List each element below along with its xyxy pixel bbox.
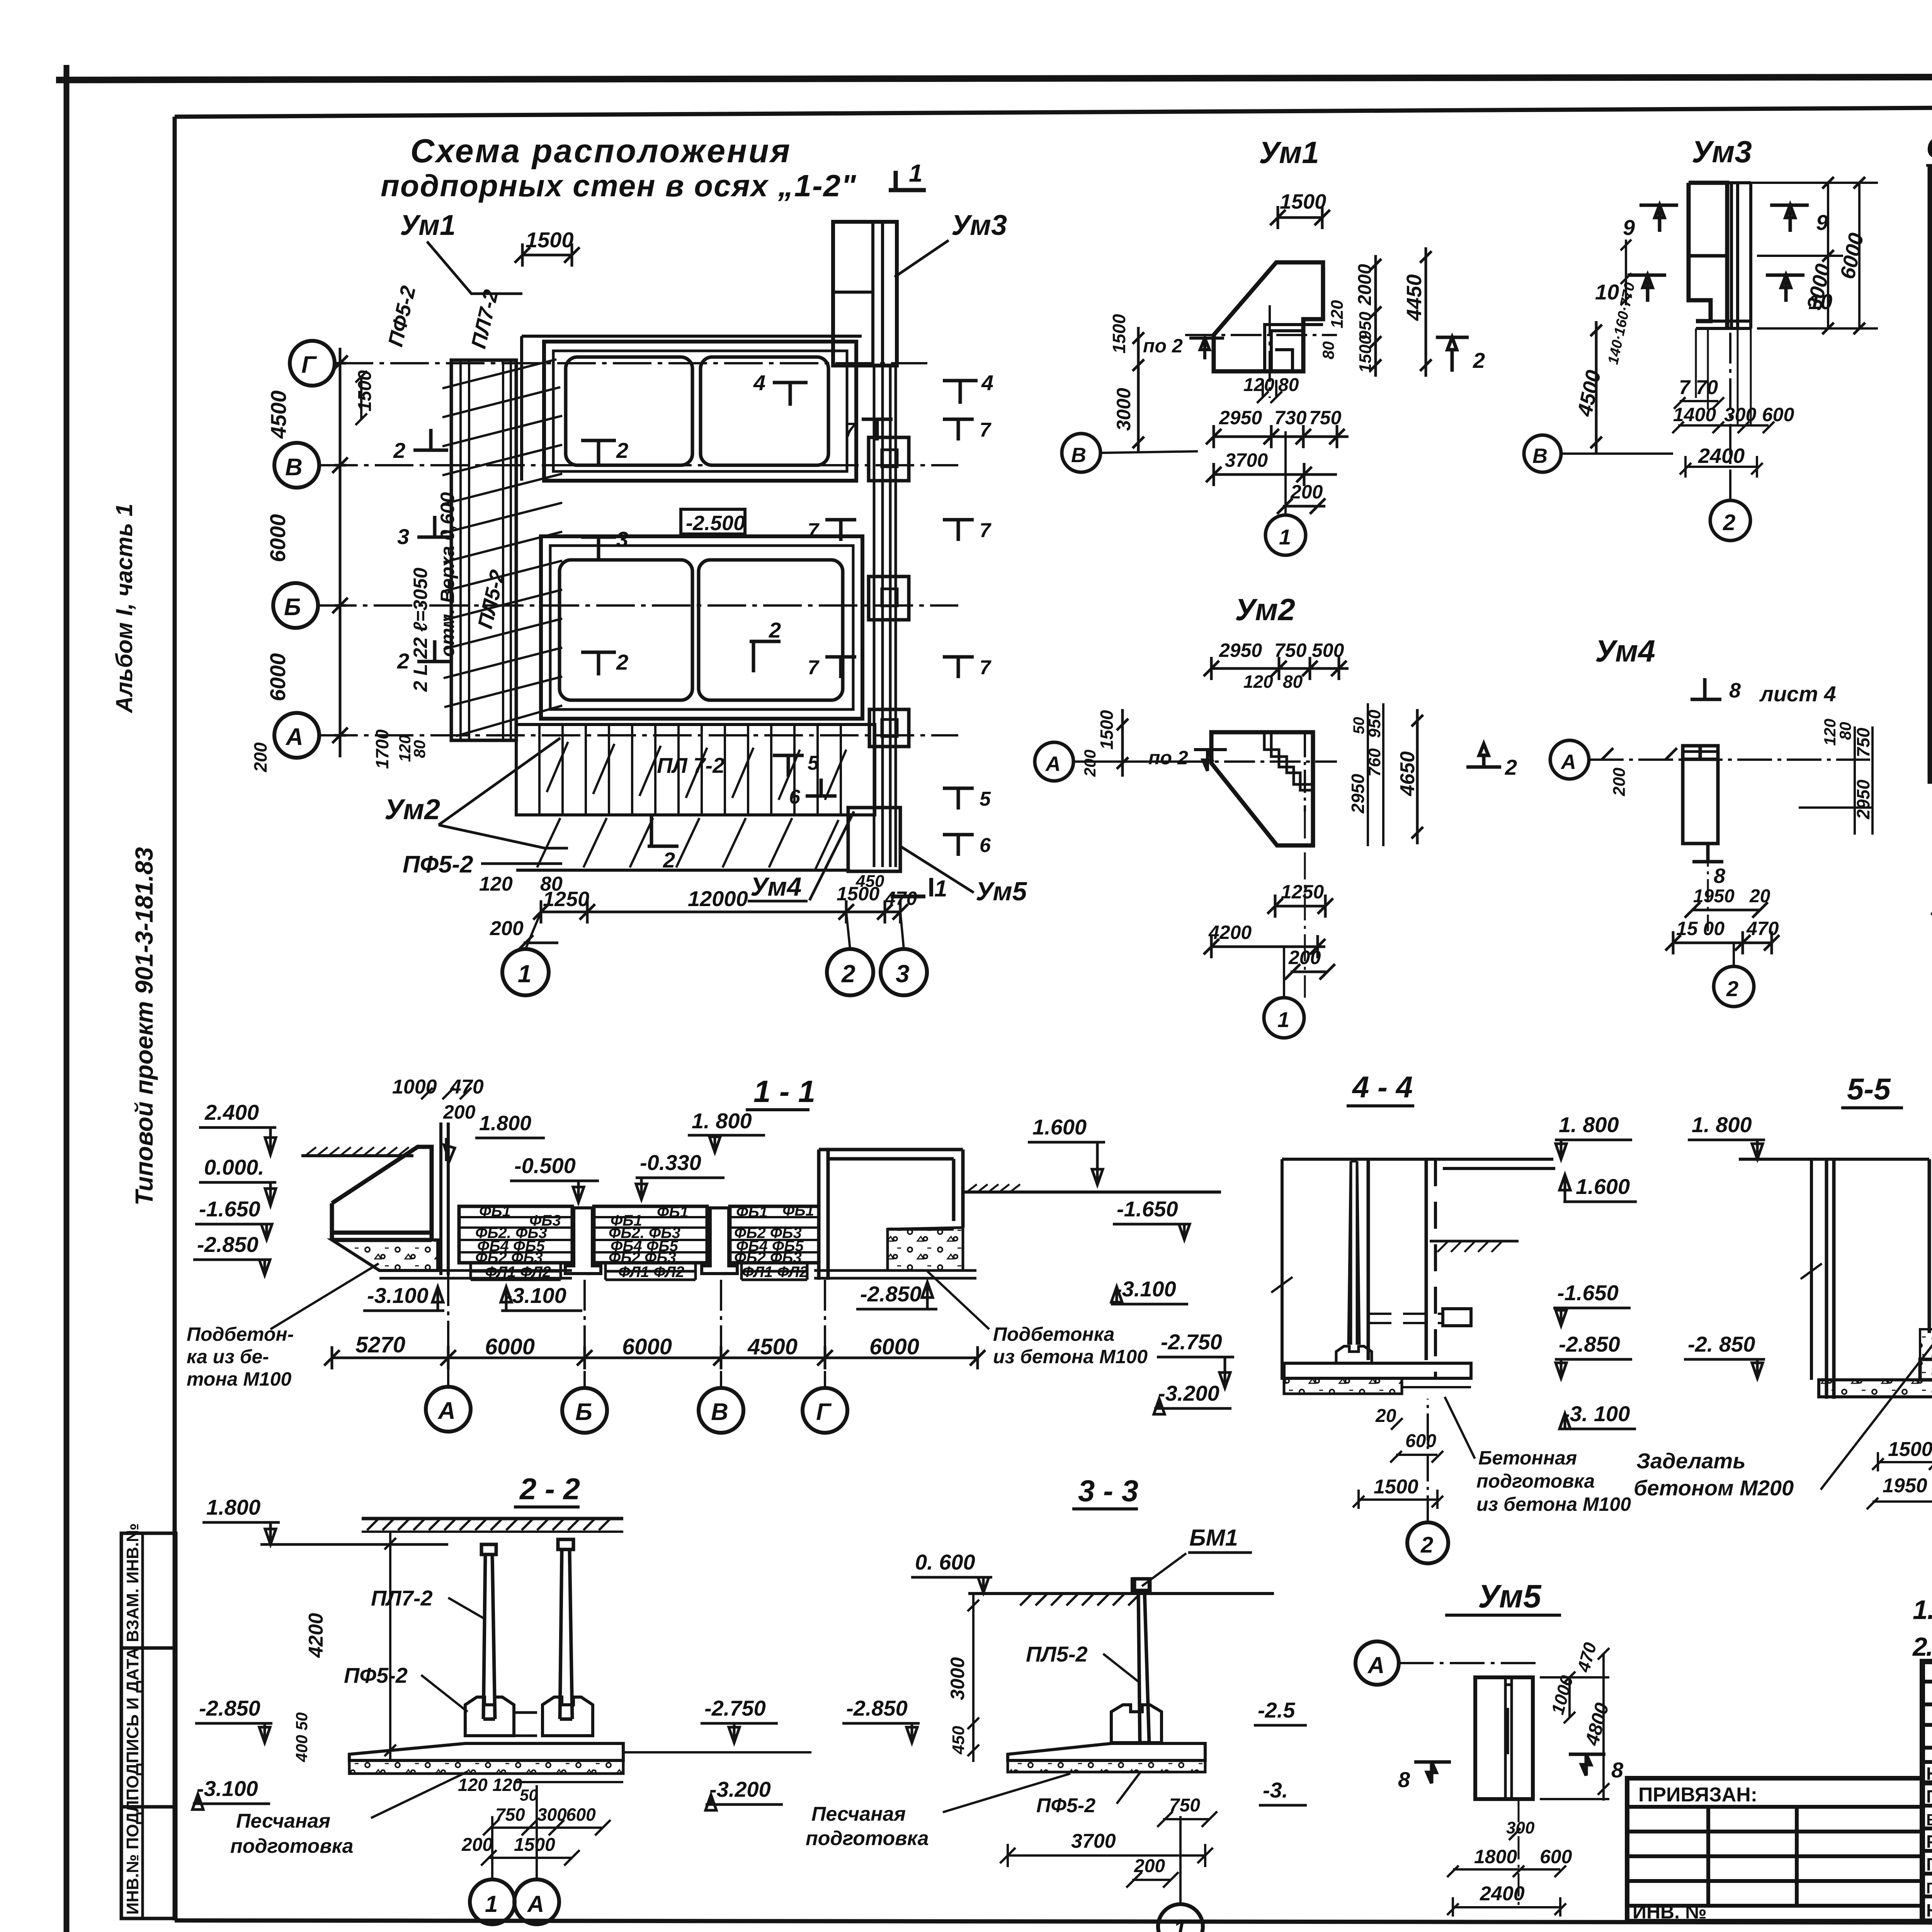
svg-text:200: 200 <box>1134 1856 1165 1876</box>
svg-text:1: 1 <box>909 159 923 187</box>
svg-text:ФЛ1 ФЛ2: ФЛ1 ФЛ2 <box>485 1264 551 1281</box>
1-1 axis A wall strip <box>441 1122 448 1275</box>
Um2 right dim column <box>1368 703 1383 846</box>
Um1 dim 4450 <box>1420 247 1432 377</box>
svg-text:Ум2: Ум2 <box>1235 592 1295 627</box>
svg-text:ФЛ1 ФЛ2: ФЛ1 ФЛ2 <box>618 1264 684 1281</box>
right top block <box>833 222 897 366</box>
svg-text:200: 200 <box>1610 767 1629 796</box>
svg-text:3: 3 <box>397 524 409 549</box>
spec table header bottom <box>1930 234 1932 239</box>
left dim chain line <box>335 348 346 757</box>
svg-text:3700: 3700 <box>1225 449 1268 471</box>
svg-text:ФБ1: ФБ1 <box>657 1204 689 1221</box>
svg-text:80: 80 <box>1836 722 1854 740</box>
2-2 dim 4200 <box>384 1532 396 1762</box>
svg-text:ПФ5-2: ПФ5-2 <box>1036 1794 1095 1817</box>
svg-text:Песчаная: Песчаная <box>811 1803 906 1825</box>
svg-text:2000: 2000 <box>1355 264 1375 306</box>
right wall strip double lines <box>874 366 896 867</box>
svg-text:2: 2 <box>393 438 405 463</box>
svg-text:1950: 1950 <box>1883 1475 1927 1497</box>
svg-text:лист 4: лист 4 <box>1759 682 1836 706</box>
Um4 A bubble <box>1550 740 1589 779</box>
svg-text:3000: 3000 <box>947 1657 968 1700</box>
svg-text:1.600: 1.600 <box>1576 1174 1630 1199</box>
svg-text:Ум3: Ум3 <box>1692 134 1752 169</box>
Um3 big block <box>1689 183 1727 328</box>
svg-text:120: 120 <box>1328 300 1347 328</box>
upper tank outer wall <box>544 342 856 481</box>
svg-text:1500: 1500 <box>514 1835 555 1855</box>
svg-text:4650: 4650 <box>1396 751 1419 796</box>
Um5 flag 8 left <box>1414 1762 1451 1783</box>
svg-text:5270: 5270 <box>355 1332 405 1357</box>
Um3 bubble 2 <box>1710 500 1750 541</box>
svg-text:120 120: 120 120 <box>458 1775 522 1795</box>
svg-text:РУК. ГР.: РУК. ГР. <box>1926 1832 1932 1852</box>
svg-text:120: 120 <box>479 873 513 895</box>
svg-text:Г: Г <box>816 1399 832 1425</box>
5-5 left boundary <box>1810 1159 1813 1380</box>
Um1 flag 2 <box>1436 337 1469 372</box>
Um1 V bubble <box>1062 434 1100 472</box>
svg-text:-2.850: -2.850 <box>1559 1332 1620 1356</box>
svg-text:200: 200 <box>1290 481 1323 503</box>
svg-text:20: 20 <box>1375 1406 1396 1426</box>
svg-text:200: 200 <box>461 1835 493 1855</box>
svg-text:-2.850: -2.850 <box>199 1696 260 1720</box>
4-4 ground right <box>1430 1240 1519 1243</box>
svg-text:1. 800: 1. 800 <box>1559 1112 1619 1137</box>
1-1 block group 3 <box>730 1206 819 1263</box>
svg-text:7 70: 7 70 <box>1679 376 1718 399</box>
svg-text:600: 600 <box>566 1804 596 1825</box>
svg-text:600: 600 <box>1405 1431 1436 1451</box>
leader Um3 <box>895 240 949 277</box>
svg-text:Ум4: Ум4 <box>1595 634 1655 668</box>
svg-text:-3.200: -3.200 <box>1158 1381 1219 1405</box>
3-3 labels bottom <box>806 1803 929 1850</box>
svg-text:-1.650: -1.650 <box>1557 1281 1619 1305</box>
svg-text:80: 80 <box>410 740 429 758</box>
elevation -2.500 box <box>681 509 745 534</box>
svg-text:Ум1: Ум1 <box>400 209 456 241</box>
svg-text:1800: 1800 <box>1474 1846 1517 1867</box>
5-5 concrete gap <box>1920 1329 1932 1380</box>
svg-text:3: 3 <box>896 960 910 988</box>
svg-text:-2.500: -2.500 <box>686 512 745 535</box>
svg-text:300: 300 <box>1506 1818 1535 1837</box>
signature table rows upper empty <box>1922 1680 1932 1684</box>
2-2 bubbles <box>470 1879 515 1924</box>
svg-text:-2.750: -2.750 <box>704 1696 766 1720</box>
3-3 wall post <box>1134 1579 1150 1743</box>
svg-text:ПРОВЕР.: ПРОВЕР. <box>1926 1786 1932 1806</box>
svg-text:-3.100: -3.100 <box>367 1283 429 1308</box>
4-4 left boundary <box>1281 1159 1284 1380</box>
svg-text:600: 600 <box>1762 404 1794 425</box>
svg-text:3700: 3700 <box>1071 1830 1116 1852</box>
svg-text:6000: 6000 <box>265 514 290 562</box>
4-4 ledge <box>1443 1309 1471 1326</box>
svg-text:-2.750: -2.750 <box>1161 1330 1222 1354</box>
svg-text:450: 450 <box>855 872 884 891</box>
Um1 inner steps <box>1265 325 1323 371</box>
2-2 footings <box>465 1697 514 1736</box>
3-3 bubble 1 <box>1158 1904 1203 1932</box>
svg-text:1500: 1500 <box>1356 335 1375 373</box>
section mark 1 bottom <box>891 878 931 896</box>
svg-text:4: 4 <box>753 371 765 395</box>
axis bubble A <box>274 713 319 758</box>
svg-text:120: 120 <box>1243 672 1273 692</box>
svg-text:В: В <box>711 1399 728 1425</box>
svg-text:1. 800: 1. 800 <box>1692 1112 1752 1137</box>
svg-text:12000: 12000 <box>688 886 748 911</box>
svg-text:950: 950 <box>1365 709 1384 738</box>
1-1 podbeton label right <box>993 1323 1148 1367</box>
Um3 figure verticals down <box>1696 328 1751 425</box>
svg-text:2: 2 <box>1420 1532 1433 1558</box>
svg-text:2. Плиты перекрытий условн: 2. Плиты перекрытий условно не полазаны. <box>1912 1632 1932 1662</box>
Um3 block mid line <box>1689 254 1727 258</box>
svg-text:А: А <box>1367 1652 1384 1678</box>
svg-text:2: 2 <box>1723 510 1735 535</box>
svg-text:по 2: по 2 <box>1148 747 1188 769</box>
svg-text:2: 2 <box>1473 348 1485 372</box>
svg-text:по 2: по 2 <box>1143 335 1183 357</box>
axis line V <box>319 464 958 466</box>
svg-text:Ум5: Ум5 <box>1478 1578 1542 1614</box>
Um4 bubble 2 <box>1714 966 1754 1007</box>
Um4 body <box>1683 746 1718 844</box>
svg-text:1000: 1000 <box>392 1076 437 1098</box>
1-1 left podbetonka wedge <box>332 1240 438 1270</box>
left label strip inner vertical <box>141 1533 144 1918</box>
svg-text:1: 1 <box>518 960 532 988</box>
svg-text:А: А <box>527 1891 544 1917</box>
Um5 flag 8 right <box>1569 1754 1605 1776</box>
svg-text:200: 200 <box>443 1101 476 1123</box>
Um3 flag 10 left <box>1628 275 1666 302</box>
1-1 dim chain <box>332 1346 978 1369</box>
svg-text:В: В <box>1532 444 1548 468</box>
svg-text:2.400: 2.400 <box>204 1100 259 1124</box>
svg-text:подготовка: подготовка <box>230 1835 354 1857</box>
svg-text:3000: 3000 <box>1113 388 1134 431</box>
3-3 footing <box>1111 1705 1162 1743</box>
inner frame bottom line <box>175 1920 1932 1923</box>
svg-text:6000: 6000 <box>622 1334 672 1359</box>
svg-text:470: 470 <box>450 1076 484 1098</box>
svg-text:7: 7 <box>980 519 992 542</box>
1-1 right ground <box>963 1190 1221 1194</box>
svg-text:6: 6 <box>789 786 801 808</box>
Um3 V bubble <box>1524 435 1561 472</box>
2-2/3-3 sand prep label <box>230 1810 354 1857</box>
svg-text:6000: 6000 <box>265 653 290 701</box>
svg-text:1: 1 <box>1173 1916 1186 1932</box>
2-2 base slab <box>349 1743 623 1760</box>
svg-text:ВЗАМ. ИНВ.№: ВЗАМ. ИНВ.№ <box>123 1523 142 1642</box>
lower tank outer wall <box>541 536 862 719</box>
svg-text:отм. Верха 0,600: отм. Верха 0,600 <box>437 492 458 657</box>
svg-text:1500: 1500 <box>1097 710 1117 750</box>
svg-text:-2.850: -2.850 <box>846 1696 908 1720</box>
Um3 right plate <box>1727 183 1751 328</box>
svg-text:1.800: 1.800 <box>206 1495 260 1519</box>
svg-text:2: 2 <box>663 848 675 872</box>
svg-text:Г: Г <box>301 352 317 378</box>
spec table title underline <box>1926 164 1932 167</box>
svg-text:БМ1: БМ1 <box>1189 1525 1238 1551</box>
svg-text:ПОДПИСЬ И ДАТА: ПОДПИСЬ И ДАТА <box>123 1648 142 1801</box>
svg-text:ПЛ 7-2: ПЛ 7-2 <box>657 753 724 777</box>
svg-text:7: 7 <box>808 656 820 679</box>
svg-text:Подбетонка: Подбетонка <box>993 1323 1114 1345</box>
svg-text:2: 2 <box>769 618 781 642</box>
svg-text:4200: 4200 <box>305 1613 327 1658</box>
Um1 bubble 1 <box>1265 515 1306 555</box>
svg-text:2: 2 <box>616 650 628 674</box>
spec table row lines <box>1930 271 1932 275</box>
svg-text:-1.650: -1.650 <box>1117 1197 1178 1221</box>
plan bottom dim chain <box>541 900 900 923</box>
svg-text:ПРИВЯЗАН:: ПРИВЯЗАН: <box>1638 1784 1757 1806</box>
spec table outer box <box>1930 169 1932 781</box>
svg-text:750: 750 <box>1853 728 1873 757</box>
svg-text:8: 8 <box>1714 864 1725 888</box>
svg-text:Подбетон-: Подбетон- <box>187 1323 294 1345</box>
retaining wall band <box>451 360 516 740</box>
svg-text:7: 7 <box>844 419 856 441</box>
svg-text:4500: 4500 <box>266 390 291 439</box>
svg-text:3 - 3: 3 - 3 <box>1078 1474 1138 1508</box>
svg-text:-1.650: -1.650 <box>199 1197 260 1221</box>
svg-text:-3.100: -3.100 <box>1115 1277 1176 1301</box>
2-2 ground hatch <box>362 1517 623 1520</box>
svg-text:ФБ1: ФБ1 <box>479 1203 511 1220</box>
inner frame top line <box>175 104 1932 117</box>
right connector box 1 <box>869 437 909 481</box>
svg-text:1 - 1: 1 - 1 <box>753 1074 815 1109</box>
Um2 body <box>1211 732 1313 845</box>
svg-text:подготовка: подготовка <box>1476 1470 1595 1492</box>
4-4 wall plate <box>1349 1161 1359 1345</box>
Um3 dim 4500 <box>1590 321 1602 454</box>
svg-text:Ум3: Ум3 <box>951 209 1007 241</box>
axis bubble G <box>290 341 335 386</box>
svg-text:ГЛ.КОНСТР.: ГЛ.КОНСТР. <box>1926 1880 1932 1897</box>
svg-text:В: В <box>285 454 303 481</box>
svg-text:50: 50 <box>520 1786 538 1804</box>
Um2 bubble 1 <box>1264 998 1304 1038</box>
Um1 axis cross <box>1185 334 1337 336</box>
svg-text:бетоном М200: бетоном М200 <box>1634 1476 1794 1500</box>
svg-text:ФБ1: ФБ1 <box>782 1202 814 1219</box>
sheet top trim line <box>56 76 1932 80</box>
svg-text:80: 80 <box>1283 672 1303 692</box>
svg-text:Б: Б <box>575 1399 592 1425</box>
svg-text:1500: 1500 <box>355 370 375 412</box>
svg-text:-3.100: -3.100 <box>505 1283 566 1308</box>
svg-text:8: 8 <box>1611 1758 1624 1782</box>
svg-text:Ум5: Ум5 <box>976 877 1027 906</box>
upper tank top extra wall line <box>522 335 862 338</box>
4-4 footing <box>1336 1346 1372 1363</box>
svg-text:2400: 2400 <box>1698 444 1745 468</box>
svg-text:-2.850: -2.850 <box>860 1282 922 1306</box>
Um3 flag 9 right <box>1770 205 1809 232</box>
svg-text:-3.200: -3.200 <box>709 1777 771 1801</box>
3-3 base slab <box>1008 1743 1205 1760</box>
svg-text:15 00: 15 00 <box>1676 918 1725 939</box>
svg-text:-0.330: -0.330 <box>640 1150 701 1175</box>
svg-text:7: 7 <box>980 656 992 679</box>
svg-text:1500: 1500 <box>1109 314 1129 354</box>
svg-text:2: 2 <box>841 960 855 988</box>
Um3 right dims <box>1751 183 1878 328</box>
svg-text:Песчаная: Песчаная <box>236 1810 330 1832</box>
svg-text:1500: 1500 <box>526 228 574 252</box>
Um1 body <box>1214 262 1323 371</box>
svg-text:1: 1 <box>1277 1007 1289 1032</box>
svg-text:А: А <box>285 724 303 750</box>
1-1 left ground hatch <box>301 1154 413 1157</box>
right connector box 3 <box>869 709 909 747</box>
5-5 zadelat label <box>1634 1449 1794 1500</box>
left label strip box <box>121 1533 176 1918</box>
bottom band 1 (plates with ticks) <box>516 724 875 815</box>
svg-text:1. Общие примечания даны: 1. Общие примечания даны на листе 4. <box>1913 1595 1932 1625</box>
axis line G <box>335 362 927 364</box>
upper tank cell 2 <box>701 357 828 465</box>
5-5 bottom slab <box>1819 1380 1932 1397</box>
svg-text:760: 760 <box>1365 748 1384 777</box>
2-2 wall post 2 <box>558 1539 573 1719</box>
bottom band 2 hatch <box>516 815 850 870</box>
svg-text:450: 450 <box>949 1726 968 1755</box>
signature rows text <box>1926 1764 1932 1920</box>
svg-text:9: 9 <box>1816 210 1828 235</box>
section flags inside plan <box>393 371 993 872</box>
svg-text:5: 5 <box>808 752 819 774</box>
svg-text:А: А <box>437 1398 456 1424</box>
3-3 anchor block <box>1132 1579 1149 1594</box>
svg-text:1250: 1250 <box>1281 881 1324 903</box>
svg-text:подготовка: подготовка <box>806 1827 929 1850</box>
svg-text:6000: 6000 <box>485 1334 535 1359</box>
svg-text:ПЛ5-2: ПЛ5-2 <box>1026 1642 1088 1666</box>
4-4 podgotovka label <box>1476 1447 1631 1515</box>
svg-text:470: 470 <box>884 888 917 909</box>
svg-text:1.800: 1.800 <box>479 1112 531 1135</box>
svg-text:-0.500: -0.500 <box>514 1153 576 1178</box>
svg-text:ГИП: ГИП <box>1926 1854 1932 1874</box>
leader Um5 <box>900 846 974 893</box>
Um1 right dim column <box>1370 255 1381 377</box>
svg-text:8: 8 <box>1729 679 1741 702</box>
svg-text:120: 120 <box>1243 375 1274 395</box>
Um2 A bubble <box>1035 742 1073 781</box>
Um3 bottom strip <box>1696 321 1751 328</box>
Um4 left tick <box>1602 748 1677 760</box>
section mark 1 top <box>889 171 926 190</box>
Um3 flag 9 left <box>1639 205 1678 232</box>
svg-text:7: 7 <box>808 519 820 542</box>
axis bubble V <box>274 443 319 488</box>
svg-text:4500: 4500 <box>747 1334 798 1359</box>
leader PF5-2 <box>481 862 562 865</box>
leader Um1 <box>427 241 522 294</box>
svg-text:2950: 2950 <box>1348 774 1368 814</box>
Um4 flag 8 bottom <box>1692 842 1723 862</box>
svg-text:подпорных стен в осях „1-2": подпорных стен в осях „1-2" <box>381 168 857 203</box>
1-1 block group 2 <box>594 1206 707 1263</box>
2-2 level line 1.800 <box>260 1543 448 1546</box>
svg-text:ИНВ. №: ИНВ. № <box>1633 1901 1707 1923</box>
svg-text:2950: 2950 <box>1219 639 1262 661</box>
Um2 axis cross <box>1179 760 1337 763</box>
svg-text:4200: 4200 <box>1208 922 1252 943</box>
svg-text:200: 200 <box>1081 750 1099 777</box>
plan bottom bubble 1 <box>502 949 549 995</box>
svg-text:А: А <box>1045 752 1061 776</box>
Um3 flag 10 right <box>1766 275 1804 302</box>
svg-text:1. 800: 1. 800 <box>692 1109 752 1133</box>
axis line A <box>319 734 958 736</box>
svg-text:600: 600 <box>1540 1846 1572 1867</box>
svg-text:2: 2 <box>397 649 409 673</box>
svg-text:Типовой проект 901-3-181.83: Типовой проект 901-3-181.83 <box>130 847 158 1206</box>
svg-text:1: 1 <box>485 1891 498 1917</box>
svg-text:Альбом I, часть 1: Альбом I, часть 1 <box>111 503 137 714</box>
1-1 podbeton label left <box>187 1323 294 1390</box>
wall band hatch ticks <box>442 359 562 736</box>
svg-text:1250: 1250 <box>543 888 589 911</box>
title block outer <box>1922 1662 1932 1921</box>
svg-text:ИНВ.№ ПОДЛ.: ИНВ.№ ПОДЛ. <box>123 1796 142 1915</box>
1-1 block labels <box>475 1202 814 1281</box>
svg-text:Б: Б <box>284 594 301 621</box>
1-1 left wedge wall <box>332 1147 432 1240</box>
svg-text:2 L 22 ℓ=3050: 2 L 22 ℓ=3050 <box>410 568 431 692</box>
svg-text:10: 10 <box>1595 280 1619 304</box>
svg-text:2950: 2950 <box>1853 779 1873 820</box>
svg-text:ПЛ7-2: ПЛ7-2 <box>371 1586 433 1610</box>
svg-text:0. 600: 0. 600 <box>915 1550 975 1574</box>
svg-text:200: 200 <box>490 917 524 940</box>
svg-text:2: 2 <box>616 438 628 463</box>
1-1 block group 1 <box>459 1206 572 1263</box>
svg-text:из бетона М100: из бетона М100 <box>993 1346 1148 1367</box>
lower tank cell 1 <box>560 560 692 700</box>
svg-text:2: 2 <box>1726 976 1738 1001</box>
svg-text:-3. 100: -3. 100 <box>1563 1401 1630 1426</box>
svg-text:730: 730 <box>1274 407 1307 429</box>
svg-text:Заделать: Заделать <box>1636 1449 1746 1473</box>
1-1 axis bubbles <box>447 1275 449 1386</box>
svg-text:5: 5 <box>980 788 991 810</box>
axis bubble B <box>273 583 318 628</box>
svg-text:8: 8 <box>1398 1767 1410 1792</box>
leader Um4 <box>810 811 854 900</box>
svg-text:-2.5: -2.5 <box>1258 1698 1295 1722</box>
svg-text:1700: 1700 <box>372 729 392 769</box>
5-5 top line <box>1739 1158 1929 1161</box>
svg-text:тона М100: тона М100 <box>187 1368 292 1390</box>
